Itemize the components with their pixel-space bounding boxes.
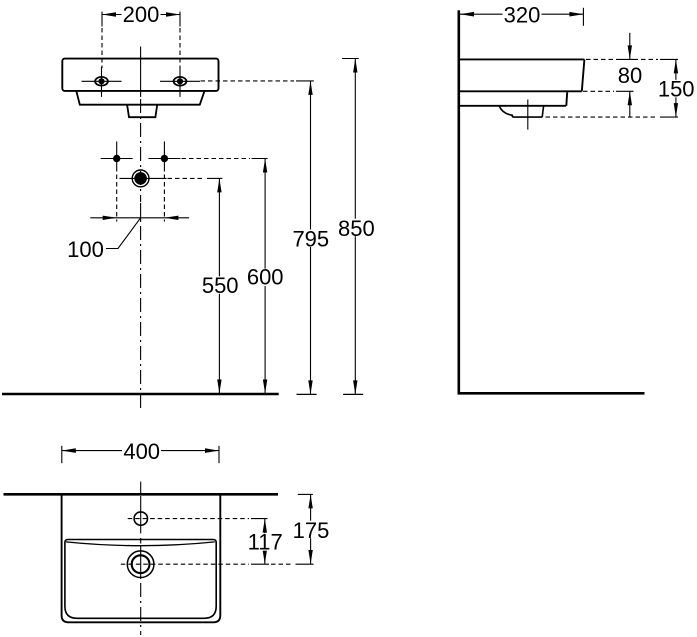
dashed line dots to 600 dimension	[182, 158, 251, 160]
dashed line drain to 175 dimension	[121, 563, 249, 565]
extension dashed vertical right of 100	[163, 167, 165, 222]
sink profile top	[460, 58, 585, 60]
dimension 795	[292, 81, 331, 395]
mounting hole right	[160, 67, 200, 97]
centerline plan view	[140, 482, 142, 635]
svg-text:117: 117	[248, 530, 283, 555]
svg-text:850: 850	[338, 216, 375, 241]
sink profile right edge upper	[582, 59, 585, 91]
fixing dot left	[101, 142, 133, 168]
dimension 600	[246, 159, 284, 394]
dimension 550	[201, 178, 240, 393]
svg-text:175: 175	[293, 518, 330, 543]
dimension 850	[337, 59, 376, 395]
leader 100	[106, 218, 141, 249]
dashed line mid level	[583, 90, 614, 92]
dimension 200 extension line left	[101, 12, 103, 68]
floor tick 795	[297, 393, 317, 395]
dashed line drain to 550 dimension	[168, 177, 206, 179]
dimension 100	[90, 216, 189, 220]
trap right edge	[542, 106, 543, 117]
drain hole (front)	[120, 170, 167, 187]
svg-text:320: 320	[504, 2, 541, 27]
fixing dot right	[148, 142, 180, 168]
dimension 200 extension line right	[179, 12, 181, 68]
dashed line trap bottom level	[546, 116, 659, 118]
dimension 200	[102, 2, 180, 27]
faucet hole plan	[134, 512, 147, 525]
dimension 400	[62, 439, 219, 464]
svg-text:600: 600	[247, 265, 284, 290]
extension dashed vertical left of 100	[116, 167, 118, 222]
dimension 80	[618, 33, 642, 118]
drain plan inner	[132, 555, 150, 573]
sink step (front)	[76, 91, 204, 105]
dotted line holes to 795 dimension	[201, 80, 295, 82]
sink outline plan	[62, 494, 221, 622]
svg-text:80: 80	[618, 63, 642, 88]
basin rim curve	[66, 542, 215, 546]
sink profile mid line	[460, 90, 582, 92]
inner basin plan	[65, 540, 216, 619]
dashed line faucet to 117 dimension	[128, 518, 249, 520]
sink body (front)	[62, 59, 218, 91]
wall line plan view	[4, 493, 279, 496]
dashed line top surface level	[586, 58, 614, 60]
centerline front view	[140, 47, 142, 410]
svg-text:200: 200	[123, 2, 160, 27]
svg-text:100: 100	[67, 237, 104, 262]
trap curve	[499, 106, 512, 117]
dimension 175	[292, 494, 331, 564]
floor tick 850	[343, 393, 363, 395]
svg-text:400: 400	[123, 439, 160, 464]
sink profile right edge lower	[565, 92, 568, 106]
drain box (front)	[127, 105, 157, 118]
mounting hole left	[82, 67, 122, 97]
svg-text:550: 550	[202, 273, 239, 298]
sink profile bottom line	[460, 105, 566, 107]
svg-text:150: 150	[658, 77, 695, 102]
svg-text:795: 795	[292, 227, 329, 252]
dimension 117	[246, 519, 285, 564]
dimension 150	[658, 59, 697, 117]
dimension 320	[460, 2, 583, 27]
floor line left view	[2, 393, 279, 396]
trap bottom	[512, 116, 542, 118]
drain axis tick	[527, 100, 529, 130]
floor line side view	[458, 392, 645, 395]
wall line	[457, 10, 460, 394]
drain plan outer	[127, 551, 154, 578]
